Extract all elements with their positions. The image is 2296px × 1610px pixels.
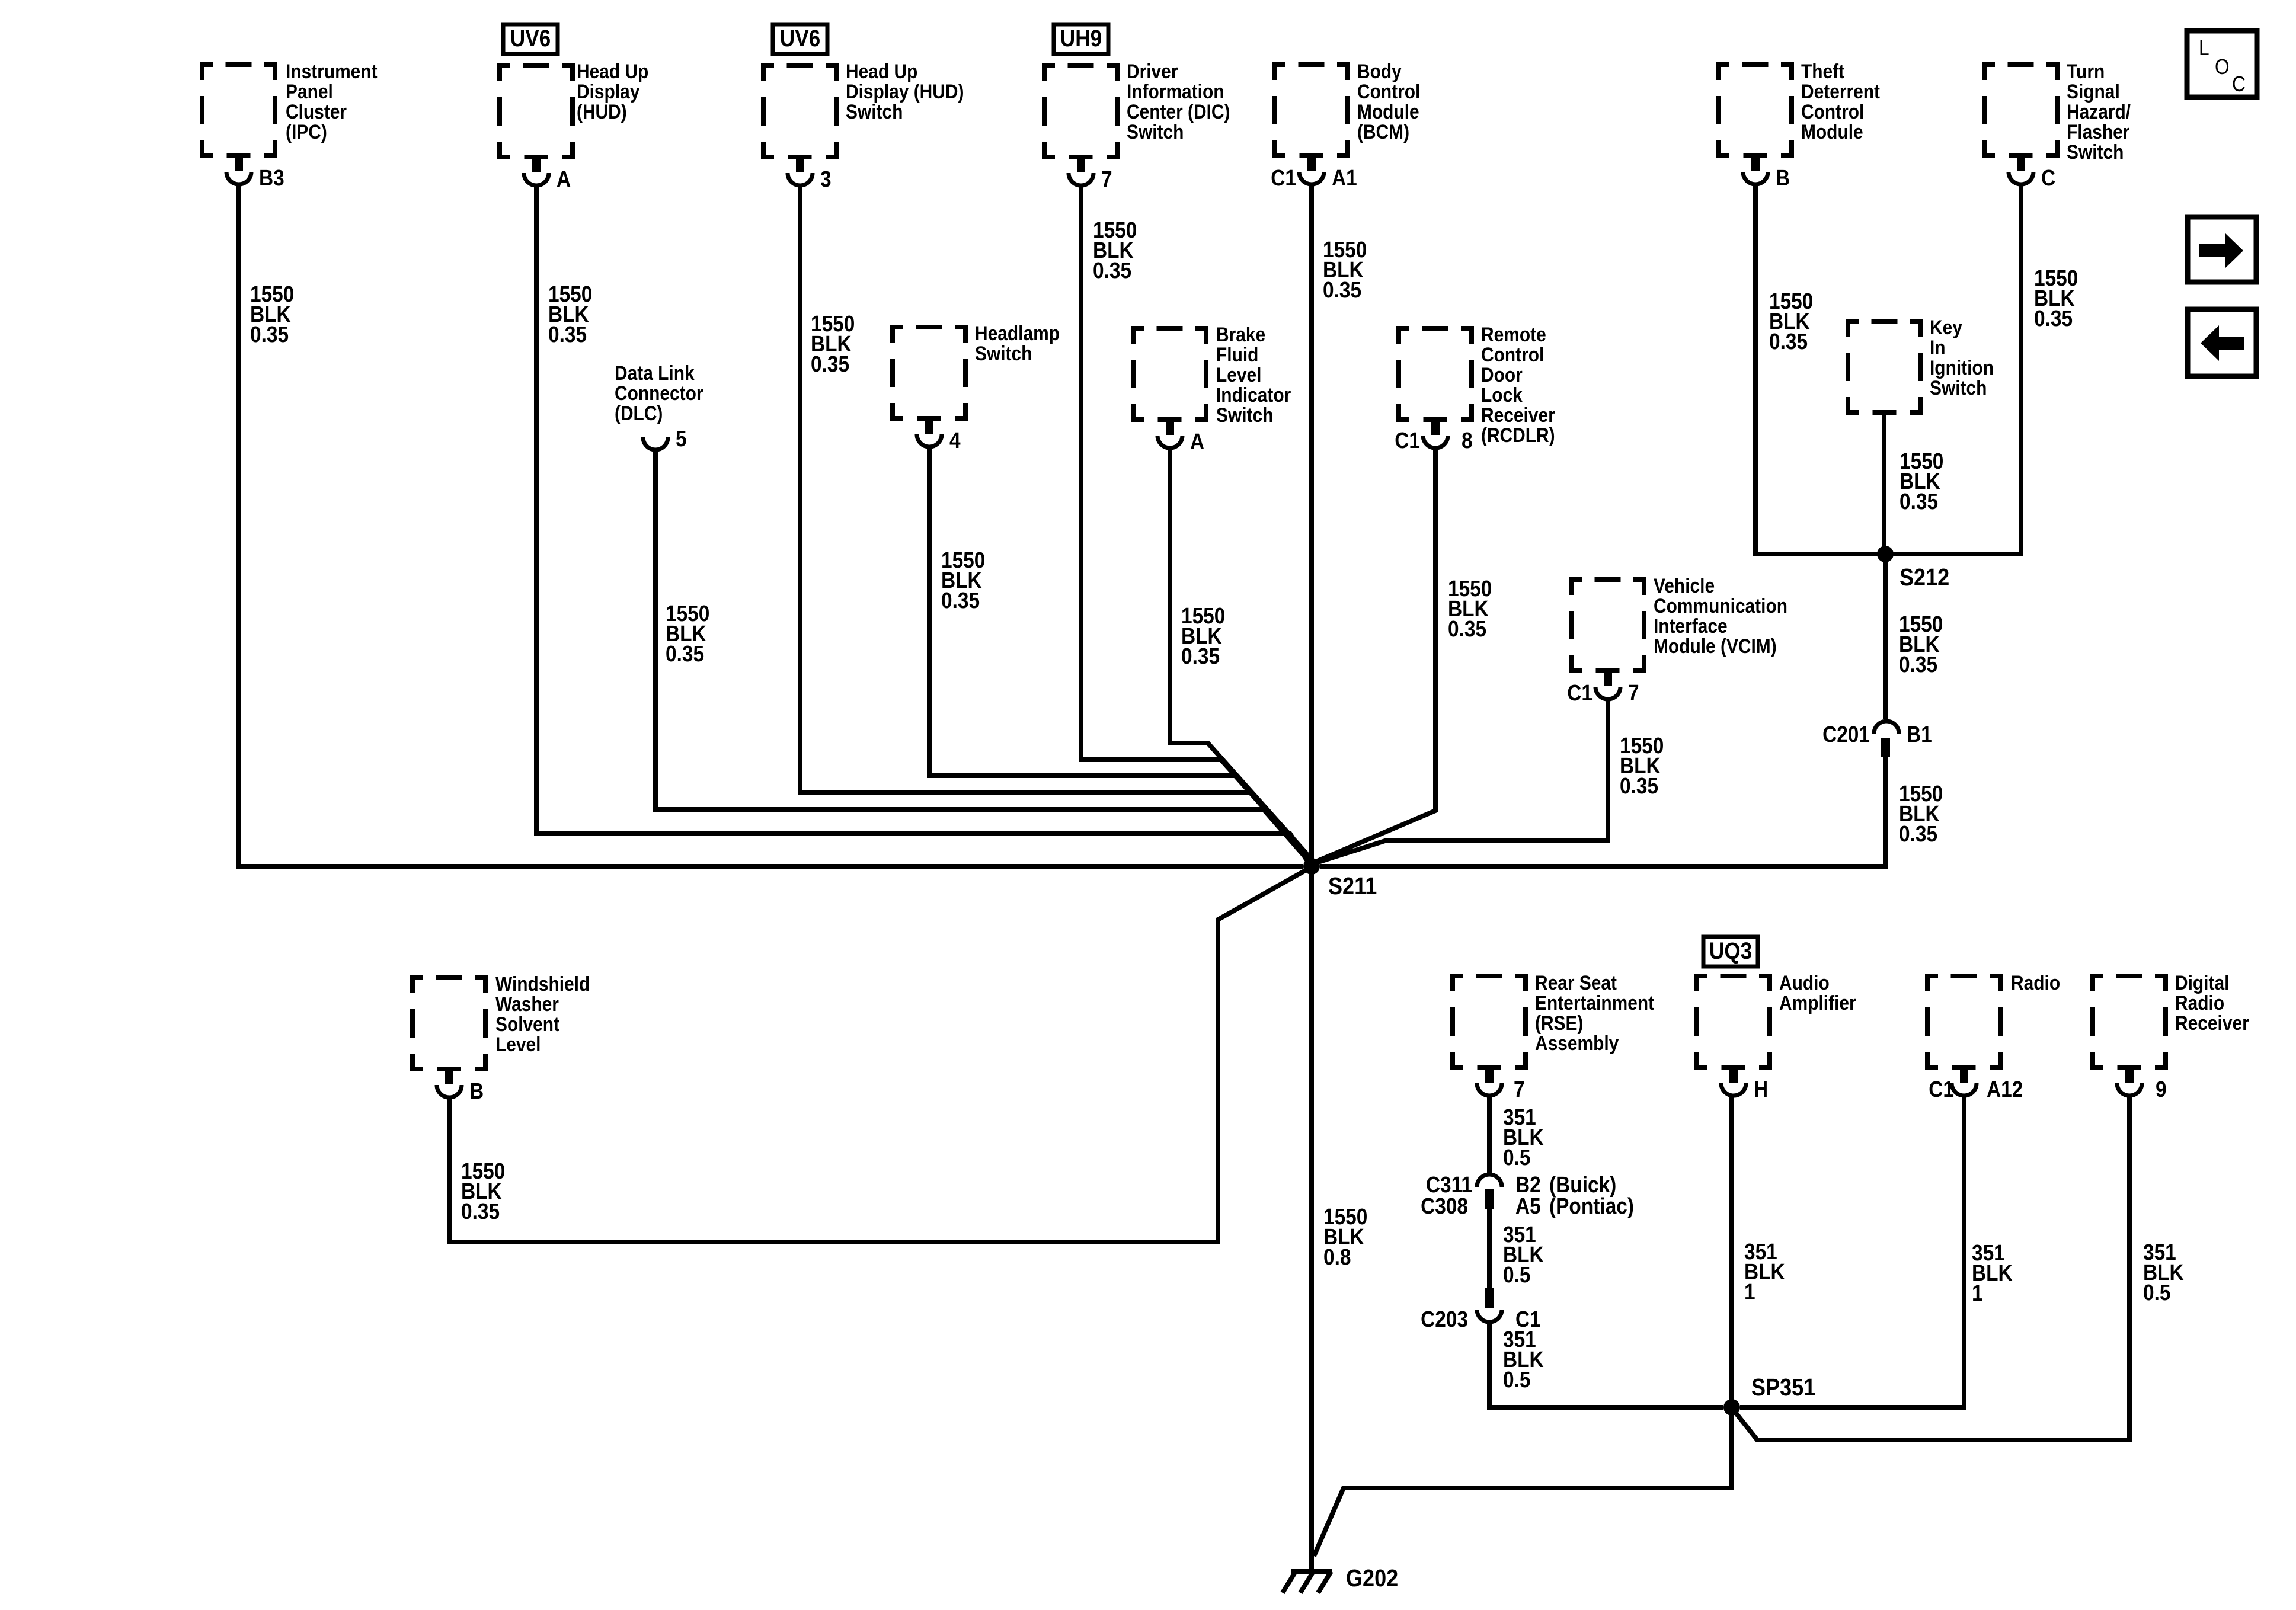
connector pin C of Turn Signal Hazard/Flasher Switch — [2009, 157, 2033, 184]
svg-text:(IPC): (IPC) — [286, 120, 327, 143]
right arrow legend box — [2188, 217, 2256, 282]
svg-text:Receiver: Receiver — [2175, 1012, 2249, 1034]
wire: S212 to C201 (1550 BLK 0.35) — [1883, 554, 1888, 719]
svg-text:Display (HUD): Display (HUD) — [846, 80, 964, 103]
connector pin B of Windshield Washer Solvent Level — [437, 1070, 462, 1097]
svg-text:Signal: Signal — [2067, 80, 2120, 103]
pin label 9 — [2156, 1077, 2167, 1102]
wire label: Headlamp wire 1550 BLK 0.35 — [941, 548, 985, 613]
svg-text:7: 7 — [1514, 1077, 1525, 1102]
splice S211 — [1303, 858, 1320, 875]
svg-text:(BCM): (BCM) — [1357, 120, 1409, 143]
svg-text:3: 3 — [820, 167, 832, 191]
pin label B — [469, 1078, 484, 1103]
component box: Instrument Panel Cluster (IPC) — [200, 62, 277, 158]
connector pin A of Brake Fluid Level Indicator Switch — [1157, 421, 1182, 448]
svg-text:A: A — [557, 167, 571, 191]
in-line connector C201 pin B1 — [1874, 721, 1899, 757]
component box: Audio Amplifier — [1694, 974, 1772, 1070]
connector C1 pin A1 of BCM — [1299, 157, 1324, 184]
connector C1 pin 7 of VCIM — [1595, 672, 1620, 699]
svg-text:S211: S211 — [1328, 873, 1377, 900]
svg-text:Flasher: Flasher — [2067, 120, 2129, 143]
svg-text:0.5: 0.5 — [1503, 1145, 1530, 1170]
wire: RSE 7 to C311 (351 BLK 0.5) — [1487, 1096, 1492, 1173]
wire label: Key ignition wire 1550 BLK 0.35 — [1900, 449, 1943, 514]
label: Radio — [2011, 971, 2060, 994]
wire: VCIM 7 to S211 (1550 BLK 0.35) — [1315, 700, 1608, 863]
svg-text:7: 7 — [1628, 680, 1639, 705]
svg-text:8: 8 — [1462, 428, 1473, 453]
svg-text:Switch: Switch — [1930, 376, 1987, 399]
label: Rear Seat Entertainment (RSE) Assembly — [1535, 971, 1654, 1054]
wire label: Radio wire 351 BLK 1 — [1972, 1240, 2013, 1305]
svg-text:(RSE): (RSE) — [1535, 1012, 1583, 1034]
svg-text:0.35: 0.35 — [2034, 306, 2073, 331]
pin label 7 — [1101, 167, 1112, 191]
svg-text:Radio: Radio — [2175, 991, 2224, 1014]
svg-text:A1: A1 — [1332, 165, 1357, 190]
node label S212 — [1900, 564, 1949, 591]
label: Digital Radio Receiver — [2175, 971, 2249, 1034]
pin label B — [1776, 165, 1790, 190]
label: Audio Amplifier — [1779, 971, 1856, 1014]
component box: Body Control Module (BCM) — [1272, 62, 1350, 158]
svg-text:A: A — [1190, 429, 1204, 454]
svg-text:0.35: 0.35 — [1899, 821, 1937, 846]
label: Body Control Module (BCM) — [1357, 60, 1420, 143]
wire: Audio Amplifier H to SP351 (351 BLK 1) — [1729, 1096, 1734, 1407]
svg-text:0.35: 0.35 — [811, 351, 849, 376]
svg-text:0.35: 0.35 — [1900, 489, 1938, 514]
component box: Turn Signal Hazard/Flasher Switch — [1982, 62, 2060, 158]
svg-text:Switch: Switch — [1127, 120, 1184, 143]
svg-text:Information: Information — [1127, 80, 1224, 103]
svg-text:Radio: Radio — [2011, 971, 2060, 994]
svg-text:Data Link: Data Link — [615, 361, 695, 384]
pin label 3 — [820, 167, 832, 191]
wire: Headlamp Switch 4 to S211 (1550 BLK 0.35) — [929, 446, 1308, 857]
wire: SP351 to G202 ground run — [1314, 1407, 1732, 1556]
svg-text:Control: Control — [1357, 80, 1420, 103]
in-line connector C311/C308 (B2 Buick / A5 Pontiac) — [1477, 1174, 1502, 1209]
wire: DIC Switch 7 to S211 (1550 BLK 0.35) — [1081, 185, 1307, 856]
svg-text:0.5: 0.5 — [1503, 1367, 1530, 1392]
wire label: RSE wire 351 BLK 0.5 — [1503, 1105, 1544, 1170]
wire label: S211 ground wire 1550 BLK 0.8 — [1323, 1204, 1367, 1269]
svg-text:Level: Level — [1216, 363, 1261, 386]
connector labels C311 / C308 / B2 (Buick) / A5 (Pontiac) — [1421, 1172, 1634, 1218]
ground G202 — [1283, 1571, 1332, 1593]
svg-text:C1: C1 — [1567, 680, 1593, 705]
svg-text:UV6: UV6 — [780, 25, 820, 52]
svg-text:H: H — [1754, 1077, 1768, 1102]
component box: Radio — [1925, 974, 2003, 1070]
wire label: HUD wire 1550 BLK 0.35 — [548, 281, 592, 347]
label: Head Up Display (HUD) — [577, 60, 648, 123]
svg-text:C308: C308 — [1421, 1193, 1468, 1218]
wire label: BCM wire 1550 BLK 0.35 — [1323, 237, 1367, 302]
wire label: Turn signal wire 1550 BLK 0.35 — [2034, 265, 2078, 331]
label: Data Link Connector (DLC) — [615, 361, 703, 424]
svg-text:Body: Body — [1357, 60, 1402, 82]
svg-text:Head Up: Head Up — [846, 60, 917, 82]
component box: Windshield Washer Solvent Level — [410, 975, 488, 1071]
wire label: Audio wire 351 BLK 1 — [1744, 1239, 1785, 1304]
pin labels C1 / 8 — [1395, 428, 1472, 453]
wire label: IPC wire 1550 BLK 0.35 — [250, 281, 294, 347]
svg-text:5: 5 — [676, 426, 687, 451]
label: Vehicle Communication Interface Module (VCIM) — [1654, 574, 1787, 657]
label: Key In Ignition Switch — [1930, 316, 1994, 399]
svg-text:C: C — [2232, 72, 2246, 96]
wire: C203 C1 to SP351 (351 BLK 0.5) — [1489, 1323, 1723, 1407]
svg-text:Switch: Switch — [975, 342, 1032, 364]
svg-text:Solvent: Solvent — [495, 1013, 559, 1035]
connector C1 pin A12 of Radio — [1952, 1068, 1977, 1096]
connector labels C201 / B1 — [1822, 722, 1932, 747]
splice S212 — [1877, 546, 1894, 562]
wire: DLC 5 to S211 (1550 BLK 0.35) — [655, 449, 1309, 861]
svg-text:C1: C1 — [1271, 165, 1296, 190]
svg-text:C201: C201 — [1822, 722, 1870, 747]
svg-text:Headlamp: Headlamp — [975, 322, 1060, 344]
svg-text:7: 7 — [1101, 167, 1112, 191]
connector pin 9 of Digital Radio Receiver — [2117, 1068, 2142, 1096]
svg-text:0.35: 0.35 — [1093, 258, 1131, 283]
label: Head Up Display (HUD) Switch — [846, 60, 964, 123]
svg-text:Lock: Lock — [1481, 383, 1523, 406]
label: Theft Deterrent Control Module — [1801, 60, 1880, 143]
svg-text:Interface: Interface — [1654, 614, 1728, 637]
wire: Radio A12 to SP351 (351 BLK 1) — [1740, 1096, 1964, 1407]
svg-text:Hazard/: Hazard/ — [2067, 100, 2131, 123]
svg-text:0.5: 0.5 — [1503, 1262, 1530, 1287]
wire label: C201-S211 wire 1550 BLK 0.35 — [1899, 781, 1943, 846]
wire: Windshield Washer B to S211 (1550 BLK 0.35) — [449, 869, 1307, 1242]
wire: HUD Switch 3 to S211 (1550 BLK 0.35) — [800, 185, 1309, 859]
splice SP351 — [1723, 1399, 1740, 1416]
pin label 7 — [1514, 1077, 1525, 1102]
svg-text:Center (DIC): Center (DIC) — [1127, 100, 1230, 123]
svg-text:S212: S212 — [1900, 564, 1949, 591]
svg-text:In: In — [1930, 336, 1946, 359]
svg-text:0.35: 0.35 — [1769, 329, 1808, 354]
pin labels C1 / 7 — [1567, 680, 1639, 705]
svg-text:(HUD): (HUD) — [577, 100, 627, 123]
connector pin A of HUD — [524, 158, 549, 185]
svg-text:Panel: Panel — [286, 80, 333, 103]
wire label: VCIM wire 1550 BLK 0.35 — [1620, 733, 1664, 798]
pin label C — [2041, 165, 2055, 190]
wire label: Brake wire 1550 BLK 0.35 — [1181, 603, 1225, 668]
connector pin B of Theft Deterrent Control Module — [1743, 157, 1768, 184]
wire label: RCDLR wire 1550 BLK 0.35 — [1448, 576, 1492, 641]
component box: Head Up Display (HUD) Switch — [761, 63, 839, 159]
svg-text:Theft: Theft — [1801, 60, 1844, 82]
wire: Key In Ignition Switch to S212 (1550 BLK 0.35) — [1882, 415, 1886, 554]
svg-text:A12: A12 — [1987, 1077, 2023, 1102]
svg-text:0.35: 0.35 — [1620, 773, 1658, 798]
wire label: Washer wire 1550 BLK 0.35 — [461, 1158, 505, 1224]
svg-text:Remote: Remote — [1481, 323, 1546, 345]
svg-text:Communication: Communication — [1654, 594, 1787, 617]
svg-text:Turn: Turn — [2067, 60, 2105, 82]
svg-text:0.35: 0.35 — [1323, 277, 1361, 302]
svg-text:B: B — [469, 1078, 484, 1103]
wire: Digital Radio Receiver 9 to SP351 (351 BLK 0.5) — [1737, 1096, 2129, 1440]
svg-text:Rear Seat: Rear Seat — [1535, 971, 1617, 994]
svg-text:Amplifier: Amplifier — [1779, 991, 1856, 1014]
wire: C311 to C203 (351 BLK 0.5) — [1487, 1209, 1492, 1288]
pin labels C1 / A1 — [1271, 165, 1357, 190]
svg-text:Ignition: Ignition — [1930, 356, 1994, 379]
svg-text:Module: Module — [1801, 120, 1863, 143]
wire label: HUD Switch wire 1550 BLK 0.35 — [811, 311, 855, 376]
svg-text:A5: A5 — [1515, 1193, 1541, 1218]
pin label 4 — [949, 428, 961, 453]
svg-text:4: 4 — [949, 428, 961, 453]
svg-text:Brake: Brake — [1216, 323, 1265, 345]
svg-text:Switch: Switch — [846, 100, 903, 123]
svg-text:0.35: 0.35 — [1899, 652, 1937, 677]
svg-text:Vehicle: Vehicle — [1654, 574, 1715, 597]
connector pin 7 of RSE Assembly — [1477, 1068, 1502, 1096]
svg-text:0.35: 0.35 — [250, 322, 289, 347]
RPO option label UH9 — [1054, 24, 1108, 54]
svg-text:Receiver: Receiver — [1481, 404, 1555, 426]
svg-text:Washer: Washer — [495, 993, 559, 1015]
svg-text:Control: Control — [1801, 100, 1864, 123]
svg-text:(DLC): (DLC) — [615, 402, 663, 424]
RPO option label UV6 — [773, 24, 827, 54]
svg-text:Head Up: Head Up — [577, 60, 648, 82]
svg-text:C1: C1 — [1929, 1077, 1954, 1102]
node label S211 — [1328, 873, 1377, 900]
svg-text:0.8: 0.8 — [1323, 1244, 1351, 1269]
wire: RCDLR 8 to S211 (1550 BLK 0.35) — [1315, 447, 1435, 862]
connector pin 5 of DLC — [643, 437, 668, 450]
pin label A — [1190, 429, 1204, 454]
wire: Theft Deterrent B / Turn Signal C to S212 (1550 BLK 0.35) — [1755, 184, 2021, 554]
svg-text:1: 1 — [1972, 1281, 1983, 1305]
svg-text:Switch: Switch — [1216, 404, 1273, 426]
label: Turn Signal Hazard/Flasher Switch — [2067, 60, 2131, 163]
connector pin 7 of DIC Switch — [1069, 158, 1093, 185]
RPO option label UQ3 — [1703, 937, 1758, 966]
svg-text:C1: C1 — [1395, 428, 1420, 453]
svg-text:Fluid: Fluid — [1216, 343, 1258, 366]
label: Driver Information Center (DIC) Switch — [1127, 60, 1230, 143]
svg-text:B1: B1 — [1907, 722, 1932, 747]
svg-text:(Pontiac): (Pontiac) — [1549, 1193, 1634, 1218]
svg-text:UQ3: UQ3 — [1709, 937, 1752, 964]
svg-text:L: L — [2199, 36, 2209, 60]
svg-text:O: O — [2215, 55, 2230, 79]
RPO option label UV6 — [503, 24, 558, 54]
component box: Digital Radio Receiver — [2090, 974, 2168, 1070]
svg-text:Level: Level — [495, 1033, 541, 1055]
wire label: C203-SP351 wire 351 BLK 0.5 — [1503, 1327, 1544, 1392]
svg-text:0.35: 0.35 — [461, 1199, 500, 1224]
svg-text:0.35: 0.35 — [1181, 644, 1220, 668]
component box: Key In Ignition Switch — [1846, 319, 1923, 415]
wire label: Theft wire 1550 BLK 0.35 — [1769, 289, 1813, 354]
svg-text:Module: Module — [1357, 100, 1419, 123]
connector C1 pin 8 of RCDLR — [1423, 421, 1448, 448]
svg-text:Connector: Connector — [615, 382, 703, 404]
wire label: C311-C203 wire 351 BLK 0.5 — [1503, 1222, 1544, 1287]
wire label: DLC wire 1550 BLK 0.35 — [666, 601, 709, 666]
svg-text:UV6: UV6 — [510, 25, 551, 52]
svg-text:9: 9 — [2156, 1077, 2167, 1102]
svg-text:Door: Door — [1481, 363, 1523, 386]
wire: C201 B1 to S211 (1550 BLK 0.35) — [1320, 757, 1885, 866]
svg-text:Windshield: Windshield — [495, 972, 590, 995]
component box: Brake Fluid Level Indicator Switch — [1131, 326, 1208, 422]
pin label B3 — [259, 165, 284, 190]
svg-text:B: B — [1776, 165, 1790, 190]
component box: Vehicle Communication Interface Module (VCIM) — [1569, 577, 1646, 673]
wire: Brake Fluid Switch A to S211 (1550 BLK 0.35) — [1170, 447, 1307, 854]
svg-text:Indicator: Indicator — [1216, 383, 1291, 406]
wire label: S212-C201 wire 1550 BLK 0.35 — [1899, 612, 1943, 677]
pin label 5 — [676, 426, 687, 451]
left arrow legend box — [2188, 309, 2256, 376]
svg-text:C: C — [2041, 165, 2055, 190]
svg-text:Cluster: Cluster — [286, 100, 347, 123]
component box: Theft Deterrent Control Module — [1716, 62, 1794, 158]
svg-text:Digital: Digital — [2175, 971, 2229, 994]
label: Remote Control Door Lock Receiver (RCDLR) — [1481, 323, 1555, 446]
wire: HUD A to S211 (1550 BLK 0.35) — [536, 185, 1309, 864]
wire: BCM A1 to S211 (1550 BLK 0.35) — [1309, 184, 1314, 866]
label: Headlamp Switch — [975, 322, 1060, 364]
svg-text:C203: C203 — [1421, 1307, 1468, 1331]
svg-text:0.5: 0.5 — [2143, 1280, 2170, 1305]
svg-text:1: 1 — [1744, 1279, 1755, 1304]
svg-text:Display: Display — [577, 80, 640, 103]
component box: Driver Information Center (DIC) Switch — [1042, 63, 1120, 159]
svg-text:Module (VCIM): Module (VCIM) — [1654, 635, 1777, 657]
svg-text:Entertainment: Entertainment — [1535, 991, 1654, 1014]
svg-text:0.35: 0.35 — [1448, 616, 1486, 641]
node label G202 — [1346, 1565, 1398, 1592]
svg-text:Deterrent: Deterrent — [1801, 80, 1880, 103]
label: Brake Fluid Level Indicator Switch — [1216, 323, 1291, 426]
LOC legend box — [2187, 31, 2257, 97]
svg-text:Instrument: Instrument — [286, 60, 378, 82]
connector pin 3 of HUD Switch — [788, 158, 813, 185]
svg-text:Driver: Driver — [1127, 60, 1178, 82]
svg-text:0.35: 0.35 — [941, 588, 980, 613]
component box: Rear Seat Entertainment (RSE) Assembly — [1450, 974, 1528, 1070]
svg-text:Key: Key — [1930, 316, 1962, 338]
svg-text:G202: G202 — [1346, 1565, 1398, 1592]
connector pin B3 of IPC — [226, 157, 251, 184]
pin labels C1 / A12 — [1929, 1077, 2023, 1102]
connector pin H of Audio Amplifier — [1721, 1068, 1746, 1096]
wire: IPC B3 to S211 (1550 BLK 0.35) — [239, 184, 1303, 866]
svg-text:Assembly: Assembly — [1535, 1032, 1619, 1054]
component box: Headlamp Switch — [890, 325, 968, 421]
svg-text:Switch: Switch — [2067, 140, 2124, 163]
svg-text:UH9: UH9 — [1060, 25, 1102, 52]
component box: Remote Control Door Lock Receiver (RCDLR) — [1396, 326, 1474, 422]
svg-text:0.35: 0.35 — [666, 641, 704, 666]
wire label: DRR wire 351 BLK 0.5 — [2143, 1240, 2184, 1305]
svg-text:0.35: 0.35 — [548, 322, 587, 347]
component box: Head Up Display (HUD) — [497, 63, 575, 159]
pin label A — [557, 167, 571, 191]
in-line connector C203 pin C1 — [1477, 1288, 1502, 1322]
connector labels C203 / C1 — [1421, 1307, 1541, 1331]
label: Windshield Washer Solvent Level — [495, 972, 590, 1055]
connector pin 4 of Headlamp Switch — [917, 420, 942, 447]
wire label: DIC wire 1550 BLK 0.35 — [1093, 217, 1137, 283]
svg-text:SP351: SP351 — [1751, 1374, 1815, 1401]
wire: S211 to G202 ground (1550 BLK 0.8) — [1309, 866, 1314, 1571]
node label SP351 — [1751, 1374, 1815, 1401]
label: Instrument Panel Cluster (IPC) — [286, 60, 378, 143]
svg-text:Control: Control — [1481, 343, 1544, 366]
svg-text:(RCDLR): (RCDLR) — [1481, 424, 1555, 446]
svg-text:Audio: Audio — [1779, 971, 1830, 994]
svg-text:B3: B3 — [259, 165, 284, 190]
pin label H — [1754, 1077, 1768, 1102]
